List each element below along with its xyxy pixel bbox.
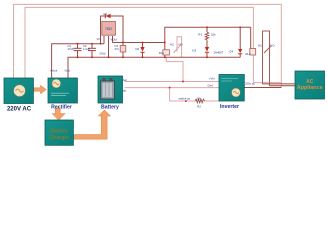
svg-text:220v ac: 220v ac [245, 82, 255, 86]
svg-text:10k: 10k [197, 97, 202, 101]
svg-text:Vin: Vin [97, 37, 101, 41]
svg-text:+Vin: +Vin [209, 77, 215, 81]
svg-text:R2: R2 [197, 105, 201, 109]
svg-text:Rectifier: Rectifier [51, 104, 72, 110]
svg-text:NC: NC [258, 44, 262, 48]
svg-text:RL2: RL2 [246, 52, 252, 56]
svg-text:Battery: Battery [50, 128, 68, 134]
svg-text:1N4007: 1N4007 [214, 51, 224, 55]
svg-text:GNd: GNd [100, 52, 106, 56]
svg-text:NO: NO [270, 44, 275, 48]
svg-text:RL1: RL1 [159, 51, 165, 55]
svg-text:D2: D2 [136, 47, 140, 51]
svg-text:Gnd: Gnd [208, 84, 214, 88]
svg-text:AC: AC [306, 79, 314, 85]
svg-text:7812: 7812 [105, 27, 112, 31]
svg-text:switch ps: switch ps [179, 97, 191, 101]
svg-text:47u: 47u [115, 47, 120, 51]
svg-text:Inverter: Inverter [220, 104, 239, 110]
svg-text:Appliance: Appliance [297, 85, 323, 91]
svg-text:220V AC: 220V AC [7, 106, 32, 112]
svg-text:Battery: Battery [101, 104, 119, 110]
svg-text:R1: R1 [198, 33, 202, 37]
svg-text:VOut: VOut [111, 38, 118, 42]
svg-text:D4: D4 [229, 50, 233, 54]
svg-text:NO: NO [179, 43, 184, 47]
svg-text:NC: NC [170, 43, 174, 47]
svg-text:10k: 10k [211, 33, 216, 37]
svg-text:Charger: Charger [49, 135, 69, 141]
svg-text:+Vout: +Vout [50, 69, 57, 73]
svg-text:D1: D1 [104, 12, 108, 16]
svg-text:47uF: 47uF [68, 47, 75, 51]
svg-text:D3: D3 [192, 49, 196, 53]
svg-text:1.0uF: 1.0uF [83, 47, 90, 51]
svg-text:Gnd: Gnd [65, 69, 71, 73]
